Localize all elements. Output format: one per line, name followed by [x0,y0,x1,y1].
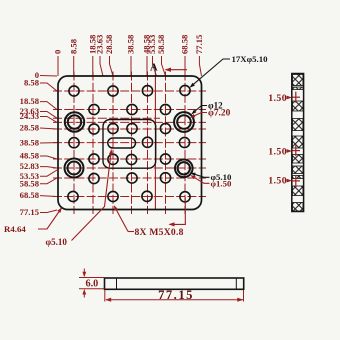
6.0 dimension [79,269,105,298]
M5 leader right [170,198,186,225]
svg-text:6.0: 6.0 [86,279,99,290]
section line A [154,71,156,210]
svg-text:1.50: 1.50 [268,93,287,104]
centerline grid rows [53,91,206,197]
svg-text:24.33: 24.33 [20,111,39,121]
centerline grid columns [74,72,185,215]
section arrow [168,69,188,71]
svg-text:77.15: 77.15 [20,207,39,217]
svg-text:8.58: 8.58 [24,78,40,88]
left dimension leader lines [40,76,57,213]
svg-text:17Xφ5.10: 17Xφ5.10 [232,54,269,64]
svg-text:φ7.20: φ7.20 [208,109,231,119]
center pocket outline [103,120,156,169]
svg-text:58.58: 58.58 [156,34,166,54]
svg-text:28.58: 28.58 [20,123,40,133]
svg-text:68.58: 68.58 [180,34,190,54]
77.15 dimension [105,290,244,302]
1.50 labels [268,93,287,186]
svg-text:38.58: 38.58 [20,138,40,148]
side view red feature ticks [292,92,300,187]
svg-text:0: 0 [53,50,63,54]
svg-text:38.58: 38.58 [126,34,136,54]
phi12/phi7.20 hole top-right [174,112,194,132]
bottom view hole ticks [116,279,118,289]
eccentric hole top-left [65,112,84,131]
svg-text:φ5.10: φ5.10 [46,237,68,247]
side view hatch blocks [293,75,303,212]
eccentric hole bottom-right [175,160,193,178]
svg-text:52.83: 52.83 [20,161,39,171]
svg-text:77.15: 77.15 [194,35,204,54]
svg-text:58.58: 58.58 [20,178,40,188]
svg-text:1.50: 1.50 [268,176,287,187]
top dimension labels [53,34,204,54]
25 small holes (17X phi5.10 + 8X M5) [68,85,190,201]
plate outline [58,76,202,210]
svg-text:18.58: 18.58 [20,96,40,106]
svg-text:φ1.50: φ1.50 [211,179,232,189]
bottom view outline [105,278,244,289]
top dimension leader lines [58,56,202,76]
svg-text:23.63: 23.63 [95,35,105,54]
side view outline [292,74,304,212]
svg-text:A: A [150,63,158,74]
center slot [108,138,136,148]
svg-text:8X M5X0.8: 8X M5X0.8 [135,227,184,238]
eccentric hole bottom-left [65,159,84,178]
svg-text:28.58: 28.58 [104,34,114,54]
svg-text:R4.64: R4.64 [4,224,26,234]
svg-text:68.58: 68.58 [20,190,40,200]
svg-text:77.15: 77.15 [158,288,194,302]
left dimension labels [20,70,40,217]
svg-text:1.50: 1.50 [268,147,287,158]
svg-text:8.58: 8.58 [68,38,78,54]
svg-text:48.58: 48.58 [20,151,40,161]
